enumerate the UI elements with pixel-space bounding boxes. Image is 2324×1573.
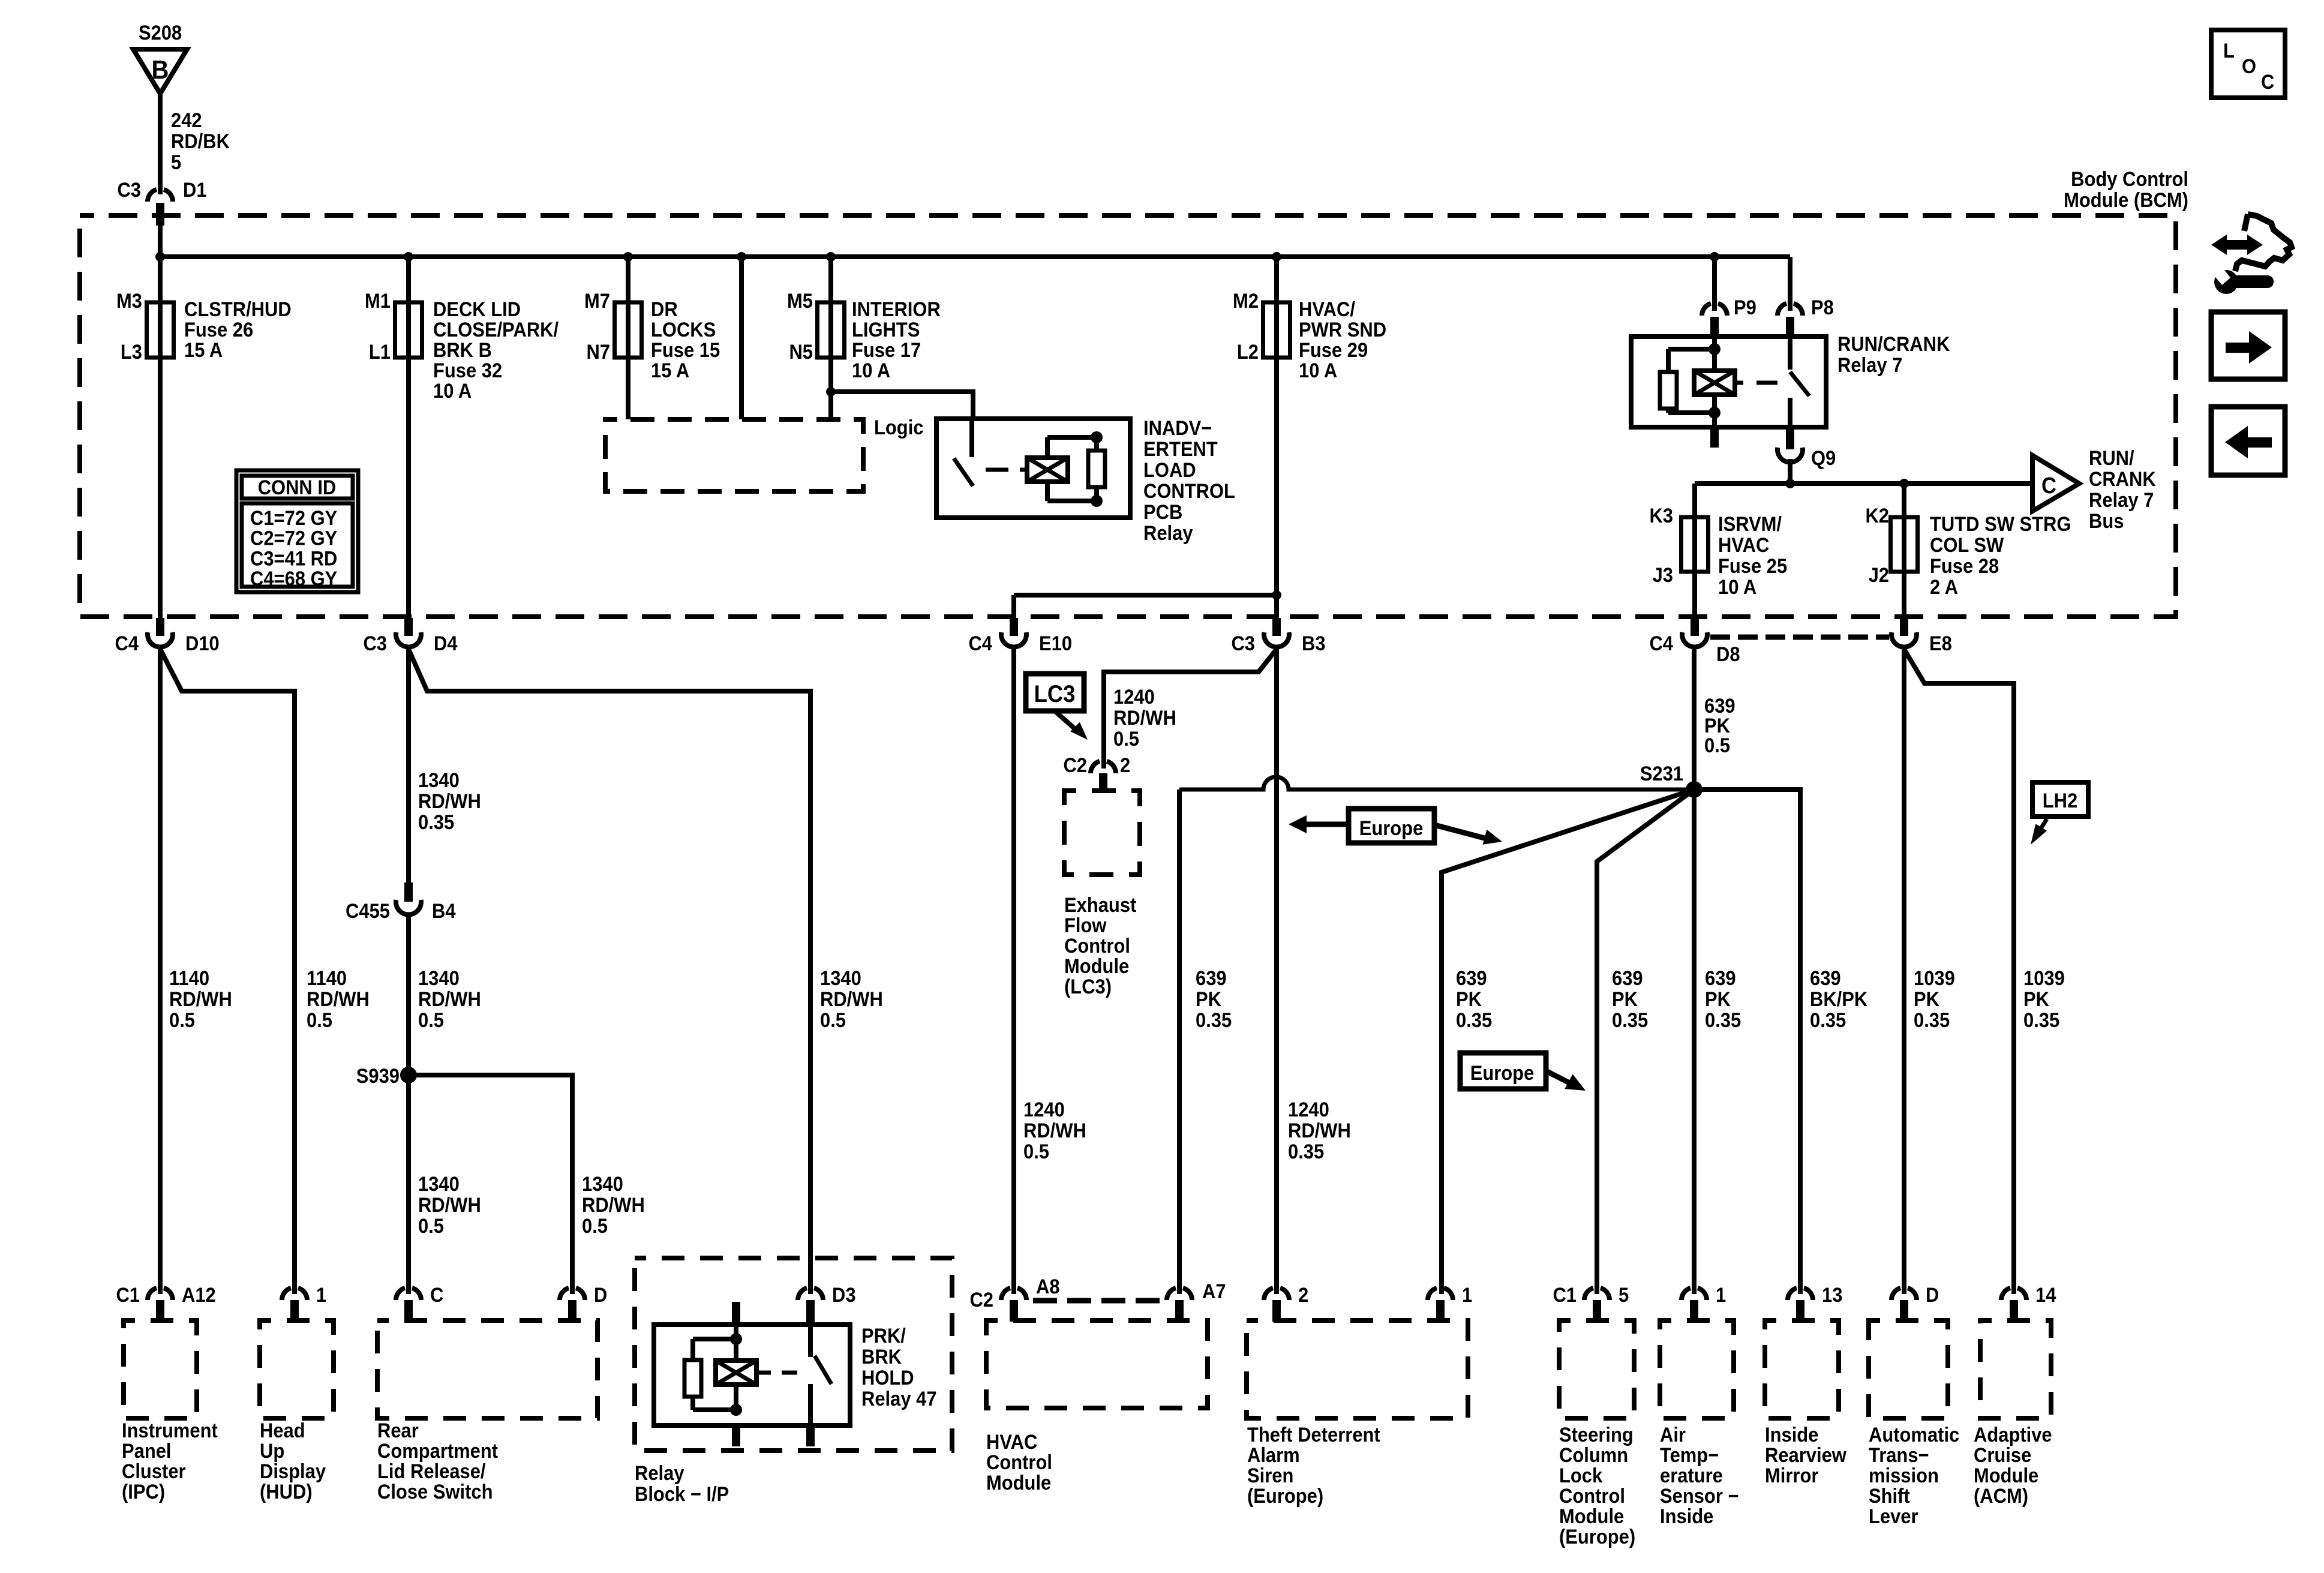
svg-text:1039: 1039 bbox=[2023, 967, 2065, 990]
svg-text:Up: Up bbox=[260, 1440, 284, 1463]
svg-text:Bus: Bus bbox=[2089, 510, 2124, 533]
svg-text:M2: M2 bbox=[1233, 290, 1259, 313]
svg-text:M5: M5 bbox=[787, 290, 813, 313]
svg-text:1340: 1340 bbox=[820, 967, 861, 990]
svg-text:PWR SND: PWR SND bbox=[1299, 319, 1386, 341]
svg-text:Fuse 26: Fuse 26 bbox=[184, 319, 253, 341]
svg-text:Cluster: Cluster bbox=[122, 1460, 186, 1483]
svg-text:639: 639 bbox=[1705, 967, 1736, 990]
svg-text:BK/PK: BK/PK bbox=[1810, 988, 1868, 1011]
svg-text:Lock: Lock bbox=[1559, 1464, 1603, 1487]
svg-text:CONN ID: CONN ID bbox=[258, 476, 337, 499]
svg-text:0.35: 0.35 bbox=[1196, 1009, 1232, 1032]
svg-text:1: 1 bbox=[1462, 1284, 1472, 1307]
svg-text:Rear: Rear bbox=[377, 1419, 419, 1442]
svg-text:Trans−: Trans− bbox=[1869, 1444, 1929, 1467]
svg-text:Fuse 17: Fuse 17 bbox=[852, 339, 921, 362]
svg-text:C4: C4 bbox=[1649, 632, 1673, 655]
svg-text:B3: B3 bbox=[1302, 632, 1326, 655]
svg-text:Air: Air bbox=[1660, 1424, 1686, 1446]
svg-text:C1=72 GY: C1=72 GY bbox=[250, 507, 338, 530]
svg-text:1340: 1340 bbox=[418, 967, 460, 990]
svg-text:CRANK: CRANK bbox=[2089, 468, 2156, 491]
svg-text:0.35: 0.35 bbox=[418, 811, 454, 834]
svg-text:1240: 1240 bbox=[1113, 686, 1155, 709]
svg-text:C1: C1 bbox=[116, 1284, 140, 1307]
svg-text:(LC3): (LC3) bbox=[1064, 975, 1112, 998]
svg-text:C2=72 GY: C2=72 GY bbox=[250, 527, 338, 550]
svg-text:1140: 1140 bbox=[169, 967, 209, 990]
svg-text:0.35: 0.35 bbox=[1810, 1009, 1846, 1032]
svg-text:CLSTR/HUD: CLSTR/HUD bbox=[184, 298, 292, 321]
svg-text:1: 1 bbox=[1716, 1284, 1726, 1307]
svg-text:Module: Module bbox=[986, 1472, 1051, 1494]
svg-text:10 A: 10 A bbox=[1299, 359, 1337, 382]
svg-text:RD/WH: RD/WH bbox=[1288, 1119, 1351, 1142]
svg-text:1039: 1039 bbox=[1914, 967, 1955, 990]
svg-text:BRK: BRK bbox=[861, 1346, 902, 1368]
svg-text:Shift: Shift bbox=[1869, 1485, 1910, 1508]
svg-text:DR: DR bbox=[651, 298, 678, 321]
svg-text:M1: M1 bbox=[365, 290, 391, 313]
svg-text:Theft Deterrent: Theft Deterrent bbox=[1247, 1424, 1380, 1446]
svg-text:Close Switch: Close Switch bbox=[377, 1481, 493, 1503]
svg-text:K3: K3 bbox=[1649, 505, 1673, 527]
svg-text:Cruise: Cruise bbox=[1974, 1444, 2031, 1467]
svg-text:15 A: 15 A bbox=[184, 339, 223, 362]
svg-text:0.35: 0.35 bbox=[1914, 1009, 1950, 1032]
svg-text:PK: PK bbox=[1612, 988, 1638, 1011]
svg-text:Relay 47: Relay 47 bbox=[861, 1388, 937, 1410]
svg-text:1140: 1140 bbox=[307, 967, 347, 990]
svg-text:0.5: 0.5 bbox=[169, 1009, 195, 1032]
svg-text:RD/BK: RD/BK bbox=[171, 130, 230, 153]
svg-text:RD/WH: RD/WH bbox=[1113, 707, 1176, 730]
svg-text:RD/WH: RD/WH bbox=[307, 988, 370, 1011]
svg-text:C3: C3 bbox=[117, 179, 141, 202]
svg-text:10 A: 10 A bbox=[433, 380, 472, 403]
svg-text:2 A: 2 A bbox=[1930, 576, 1958, 599]
svg-text:0.35: 0.35 bbox=[1456, 1009, 1492, 1032]
svg-text:(Europe): (Europe) bbox=[1559, 1526, 1635, 1548]
svg-text:C455: C455 bbox=[346, 900, 390, 923]
svg-text:D1: D1 bbox=[183, 179, 207, 202]
svg-text:(ACM): (ACM) bbox=[1974, 1485, 2028, 1508]
svg-text:S939: S939 bbox=[356, 1065, 400, 1088]
svg-text:Column: Column bbox=[1559, 1444, 1628, 1467]
svg-text:5: 5 bbox=[1619, 1284, 1629, 1307]
svg-text:0.5: 0.5 bbox=[418, 1009, 444, 1032]
svg-text:E8: E8 bbox=[1929, 632, 1952, 655]
svg-text:Europe: Europe bbox=[1359, 817, 1424, 840]
svg-text:1240: 1240 bbox=[1023, 1098, 1065, 1121]
svg-text:N7: N7 bbox=[586, 341, 610, 364]
svg-text:HVAC/: HVAC/ bbox=[1299, 298, 1355, 321]
svg-text:Fuse 15: Fuse 15 bbox=[651, 339, 720, 362]
svg-text:1340: 1340 bbox=[418, 1173, 460, 1196]
svg-text:C2: C2 bbox=[969, 1289, 993, 1311]
svg-text:P9: P9 bbox=[1734, 296, 1756, 319]
svg-text:Control: Control bbox=[986, 1451, 1052, 1474]
svg-text:C2: C2 bbox=[1063, 754, 1087, 777]
svg-text:Steering: Steering bbox=[1559, 1424, 1634, 1446]
svg-text:Adaptive: Adaptive bbox=[1974, 1424, 2052, 1446]
svg-text:PRK/: PRK/ bbox=[861, 1325, 906, 1347]
svg-text:O: O bbox=[2242, 55, 2256, 78]
svg-text:Head: Head bbox=[260, 1419, 305, 1442]
svg-text:(IPC): (IPC) bbox=[122, 1481, 165, 1503]
svg-text:Control: Control bbox=[1559, 1485, 1625, 1508]
svg-text:D: D bbox=[594, 1284, 607, 1307]
svg-text:L3: L3 bbox=[121, 341, 142, 364]
svg-text:0.35: 0.35 bbox=[1612, 1009, 1648, 1032]
svg-text:CONTROL: CONTROL bbox=[1143, 480, 1235, 503]
svg-text:1240: 1240 bbox=[1288, 1098, 1329, 1121]
svg-text:B: B bbox=[152, 55, 169, 84]
svg-text:Relay: Relay bbox=[635, 1462, 684, 1485]
svg-text:Block − I/P: Block − I/P bbox=[635, 1483, 729, 1506]
svg-text:E10: E10 bbox=[1039, 632, 1072, 655]
svg-text:Display: Display bbox=[260, 1460, 326, 1483]
svg-text:0.5: 0.5 bbox=[1023, 1140, 1049, 1163]
svg-text:A12: A12 bbox=[182, 1284, 216, 1307]
svg-text:A8: A8 bbox=[1036, 1275, 1060, 1298]
svg-text:PK: PK bbox=[1705, 988, 1731, 1011]
svg-text:C4: C4 bbox=[115, 632, 139, 655]
svg-text:Fuse 25: Fuse 25 bbox=[1718, 555, 1787, 578]
svg-text:639: 639 bbox=[1810, 967, 1841, 990]
svg-text:C3: C3 bbox=[363, 632, 387, 655]
svg-text:C1: C1 bbox=[1553, 1284, 1577, 1307]
svg-text:Module: Module bbox=[1064, 955, 1129, 978]
svg-text:C3=41 RD: C3=41 RD bbox=[250, 547, 337, 570]
svg-text:Exhaust: Exhaust bbox=[1064, 894, 1137, 917]
svg-text:LC3: LC3 bbox=[1034, 680, 1076, 707]
svg-text:RD/WH: RD/WH bbox=[820, 988, 883, 1011]
svg-text:D8: D8 bbox=[1716, 643, 1740, 666]
svg-text:L1: L1 bbox=[369, 341, 391, 364]
svg-text:N5: N5 bbox=[789, 341, 813, 364]
svg-text:mission: mission bbox=[1869, 1464, 1939, 1487]
svg-text:L: L bbox=[2223, 40, 2235, 62]
svg-text:2: 2 bbox=[1120, 754, 1130, 777]
svg-text:HVAC: HVAC bbox=[1718, 534, 1769, 557]
svg-text:1340: 1340 bbox=[582, 1173, 623, 1196]
svg-text:Fuse 29: Fuse 29 bbox=[1299, 339, 1368, 362]
svg-text:0.5: 0.5 bbox=[820, 1009, 846, 1032]
svg-text:Inside: Inside bbox=[1765, 1424, 1818, 1446]
svg-text:J2: J2 bbox=[1869, 564, 1889, 587]
svg-text:S208: S208 bbox=[139, 22, 182, 44]
svg-text:A7: A7 bbox=[1202, 1280, 1226, 1303]
svg-text:RD/WH: RD/WH bbox=[1023, 1119, 1086, 1142]
svg-text:Flow: Flow bbox=[1064, 914, 1107, 937]
svg-text:639: 639 bbox=[1196, 967, 1227, 990]
svg-text:B4: B4 bbox=[432, 900, 456, 923]
svg-text:C: C bbox=[2261, 71, 2274, 94]
svg-text:LH2: LH2 bbox=[2043, 789, 2077, 812]
svg-text:10 A: 10 A bbox=[852, 359, 890, 382]
svg-text:RUN/CRANK: RUN/CRANK bbox=[1837, 333, 1950, 356]
svg-text:DECK LID: DECK LID bbox=[433, 298, 521, 321]
svg-text:C: C bbox=[430, 1284, 443, 1307]
svg-text:Control: Control bbox=[1064, 935, 1130, 957]
svg-text:1: 1 bbox=[316, 1284, 326, 1307]
svg-text:K2: K2 bbox=[1865, 505, 1889, 527]
svg-text:0.5: 0.5 bbox=[418, 1215, 444, 1238]
svg-text:Panel: Panel bbox=[122, 1440, 172, 1463]
svg-text:Mirror: Mirror bbox=[1765, 1464, 1819, 1487]
svg-text:Lid Release/: Lid Release/ bbox=[377, 1460, 486, 1483]
svg-text:2: 2 bbox=[1298, 1284, 1308, 1307]
svg-text:Relay: Relay bbox=[1143, 522, 1193, 545]
svg-text:5: 5 bbox=[171, 151, 181, 174]
svg-text:D3: D3 bbox=[832, 1284, 856, 1307]
svg-text:D4: D4 bbox=[434, 632, 458, 655]
svg-text:ERTENT: ERTENT bbox=[1143, 438, 1218, 461]
svg-text:639: 639 bbox=[1456, 967, 1487, 990]
svg-text:RD/WH: RD/WH bbox=[582, 1194, 645, 1217]
svg-text:M7: M7 bbox=[584, 290, 610, 313]
svg-text:RD/WH: RD/WH bbox=[418, 790, 481, 813]
svg-text:0.35: 0.35 bbox=[1288, 1140, 1324, 1163]
svg-text:PK: PK bbox=[1456, 988, 1482, 1011]
svg-text:Module (BCM): Module (BCM) bbox=[2064, 189, 2188, 212]
svg-text:TUTD SW STRG: TUTD SW STRG bbox=[1930, 513, 2071, 536]
svg-text:LOAD: LOAD bbox=[1143, 459, 1196, 482]
svg-text:Rearview: Rearview bbox=[1765, 1444, 1847, 1467]
svg-text:Module: Module bbox=[1974, 1464, 2038, 1487]
svg-text:RD/WH: RD/WH bbox=[169, 988, 232, 1011]
svg-text:0.5: 0.5 bbox=[1113, 728, 1139, 751]
svg-text:15 A: 15 A bbox=[651, 359, 689, 382]
svg-text:C3: C3 bbox=[1231, 632, 1255, 655]
svg-text:RD/WH: RD/WH bbox=[418, 988, 481, 1011]
svg-text:RD/WH: RD/WH bbox=[418, 1194, 481, 1217]
svg-text:Automatic: Automatic bbox=[1869, 1424, 1959, 1446]
svg-text:0.5: 0.5 bbox=[582, 1215, 608, 1238]
svg-text:LOCKS: LOCKS bbox=[651, 319, 716, 341]
svg-text:0.35: 0.35 bbox=[2023, 1009, 2059, 1032]
svg-text:J3: J3 bbox=[1653, 564, 1673, 587]
svg-text:Lever: Lever bbox=[1869, 1505, 1918, 1528]
svg-text:erature: erature bbox=[1660, 1464, 1723, 1487]
svg-text:Q9: Q9 bbox=[1811, 447, 1836, 470]
svg-text:14: 14 bbox=[2035, 1284, 2056, 1307]
svg-text:M3: M3 bbox=[116, 290, 142, 313]
svg-text:0.5: 0.5 bbox=[307, 1009, 332, 1032]
svg-text:13: 13 bbox=[1822, 1284, 1842, 1307]
svg-text:Fuse 32: Fuse 32 bbox=[433, 359, 502, 382]
svg-text:Module: Module bbox=[1559, 1505, 1624, 1528]
svg-text:BRK B: BRK B bbox=[433, 339, 492, 362]
svg-text:10 A: 10 A bbox=[1718, 576, 1756, 599]
svg-text:ISRVM/: ISRVM/ bbox=[1718, 513, 1782, 536]
svg-text:Instrument: Instrument bbox=[122, 1419, 218, 1442]
svg-text:RUN/: RUN/ bbox=[2089, 447, 2134, 470]
svg-text:INADV−: INADV− bbox=[1143, 417, 1212, 440]
svg-text:LIGHTS: LIGHTS bbox=[852, 319, 920, 341]
svg-text:Compartment: Compartment bbox=[377, 1440, 498, 1463]
svg-text:(Europe): (Europe) bbox=[1247, 1485, 1323, 1508]
svg-text:HOLD: HOLD bbox=[861, 1367, 914, 1389]
svg-text:Body Control: Body Control bbox=[2071, 168, 2188, 191]
svg-text:HVAC: HVAC bbox=[986, 1431, 1037, 1454]
svg-text:C4=68 GY: C4=68 GY bbox=[250, 568, 338, 590]
svg-text:PCB: PCB bbox=[1143, 501, 1182, 524]
svg-text:Fuse 28: Fuse 28 bbox=[1930, 555, 1999, 578]
svg-text:Europe: Europe bbox=[1470, 1062, 1535, 1085]
svg-text:Alarm: Alarm bbox=[1247, 1444, 1300, 1467]
svg-text:Relay 7: Relay 7 bbox=[2089, 489, 2154, 512]
svg-text:P8: P8 bbox=[1811, 296, 1834, 319]
svg-text:PK: PK bbox=[1914, 988, 1939, 1011]
svg-text:242: 242 bbox=[171, 109, 202, 132]
svg-text:D: D bbox=[1926, 1284, 1939, 1307]
svg-text:COL SW: COL SW bbox=[1930, 534, 2004, 557]
svg-text:Logic: Logic bbox=[874, 416, 923, 439]
svg-text:639: 639 bbox=[1612, 967, 1643, 990]
svg-text:(HUD): (HUD) bbox=[260, 1481, 313, 1503]
svg-text:D10: D10 bbox=[185, 632, 220, 655]
svg-text:PK: PK bbox=[2023, 988, 2049, 1011]
svg-text:Temp−: Temp− bbox=[1660, 1444, 1719, 1467]
svg-text:L2: L2 bbox=[1237, 341, 1259, 364]
svg-text:Inside: Inside bbox=[1660, 1505, 1713, 1528]
svg-text:Sensor −: Sensor − bbox=[1660, 1485, 1739, 1508]
svg-text:S231: S231 bbox=[1640, 763, 1683, 785]
svg-text:INTERIOR: INTERIOR bbox=[852, 298, 941, 321]
svg-text:CLOSE/PARK/: CLOSE/PARK/ bbox=[433, 319, 559, 341]
svg-text:PK: PK bbox=[1196, 988, 1221, 1011]
svg-text:1340: 1340 bbox=[418, 769, 460, 792]
svg-text:C4: C4 bbox=[968, 632, 992, 655]
svg-text:Relay 7: Relay 7 bbox=[1837, 354, 1902, 377]
svg-text:C: C bbox=[2041, 472, 2056, 498]
svg-text:Siren: Siren bbox=[1247, 1464, 1293, 1487]
svg-text:0.5: 0.5 bbox=[1704, 734, 1730, 757]
svg-text:0.35: 0.35 bbox=[1705, 1009, 1741, 1032]
